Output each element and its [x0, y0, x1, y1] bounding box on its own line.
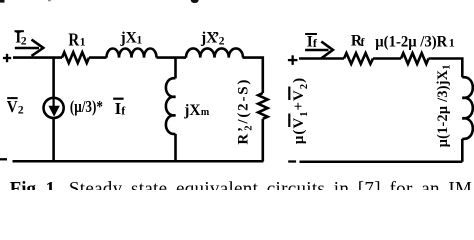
arrow for If [305, 42, 333, 59]
stray mark top faint [48, 0, 51, 1]
svg-text:2: 2 [219, 35, 225, 47]
current source (mu/3)*If circle [44, 98, 64, 118]
label V2 (terminal voltage) [7, 97, 24, 116]
wire between Rf and resistor [373, 57, 401, 60]
resistor Rf [344, 53, 373, 64]
svg-text:1: 1 [80, 37, 86, 49]
wire to top-right corner, down to inductor [429, 59, 463, 78]
svg-text:jX: jX [120, 29, 138, 46]
label (mu/3)*If of current source [70, 97, 126, 118]
label If (field current) [305, 34, 318, 51]
label R1 [68, 29, 85, 49]
label mu(1-2mu/3)R1 [375, 33, 455, 50]
svg-text:V: V [7, 97, 18, 116]
label mu(V1+V2) rotated [289, 77, 310, 144]
label jXm [183, 102, 210, 119]
wire from current source to bottom rail [52, 118, 55, 161]
svg-text:jX: jX [183, 102, 201, 119]
inductor mu(1-2mu/3)jX1 [462, 77, 473, 139]
caption: Fig. 1. Steady state equivalent circuits in [7] for an IM [10, 178, 473, 199]
label Rf [351, 33, 366, 50]
label R'2/(2-S) rotated [236, 78, 255, 145]
svg-text:Steady state equivalent circui: Steady state equivalent circuits in [7] … [69, 178, 472, 190]
wire between jX1 and jX'2 [157, 56, 187, 59]
resistor R1 [62, 52, 89, 63]
svg-text:(μ/3)*: (μ/3)* [70, 97, 103, 116]
stray mark top-left (cropped text above) [0, 0, 5, 3]
wire top-left segment right circuit [299, 57, 344, 60]
current source arrow [48, 99, 59, 117]
inductor jX1 [107, 49, 157, 58]
wire bottom rail right circuit [300, 161, 463, 164]
label jX'2 [200, 29, 225, 47]
wire between R1 and jX1 [89, 56, 107, 59]
svg-text:R: R [68, 29, 80, 49]
wire jX'2 to right corner, down to R'2 branch [243, 58, 263, 93]
arrow for I2 [15, 40, 44, 56]
wire below jXm to bottom rail [174, 134, 177, 161]
wire from top rail down to current source [52, 58, 55, 99]
wire below R'2 to bottom rail [261, 119, 264, 162]
resistor R'2/(2-S) vertical zigzag [258, 93, 268, 119]
minus terminal left circuit [0, 158, 7, 160]
svg-text:2: 2 [18, 104, 24, 116]
svg-text:1: 1 [449, 36, 455, 50]
label mu(1-2mu/3)jX1 rotated [435, 64, 452, 147]
resistor mu(1-2mu/3)R1 [401, 53, 429, 64]
svg-text:μ(1-2μ /3)R: μ(1-2μ /3)R [375, 33, 448, 50]
svg-text:μ(1-2μ /3)jX1: μ(1-2μ /3)jX1 [435, 64, 452, 147]
wire bottom rail left circuit [13, 160, 264, 163]
label jX1 [120, 29, 143, 46]
wire from top rail down to jXm [174, 58, 177, 79]
label I2 (current into left circuit) [15, 30, 27, 48]
wire below inductor to bottom rail [461, 139, 464, 162]
svg-text:m: m [201, 107, 210, 118]
wire top-left segment [13, 56, 62, 59]
minus terminal right circuit [288, 160, 296, 162]
svg-text:Fig. 1.: Fig. 1. [10, 178, 60, 190]
svg-text:1: 1 [137, 35, 143, 47]
inductor jXm (magnetizing) [166, 78, 176, 134]
svg-text:2: 2 [21, 36, 27, 48]
plus terminal right circuit [288, 55, 298, 65]
plus terminal left circuit [3, 54, 11, 62]
stray mark top-middle (cropped descender) [191, 0, 199, 3]
inductor jX'2 [186, 48, 243, 57]
